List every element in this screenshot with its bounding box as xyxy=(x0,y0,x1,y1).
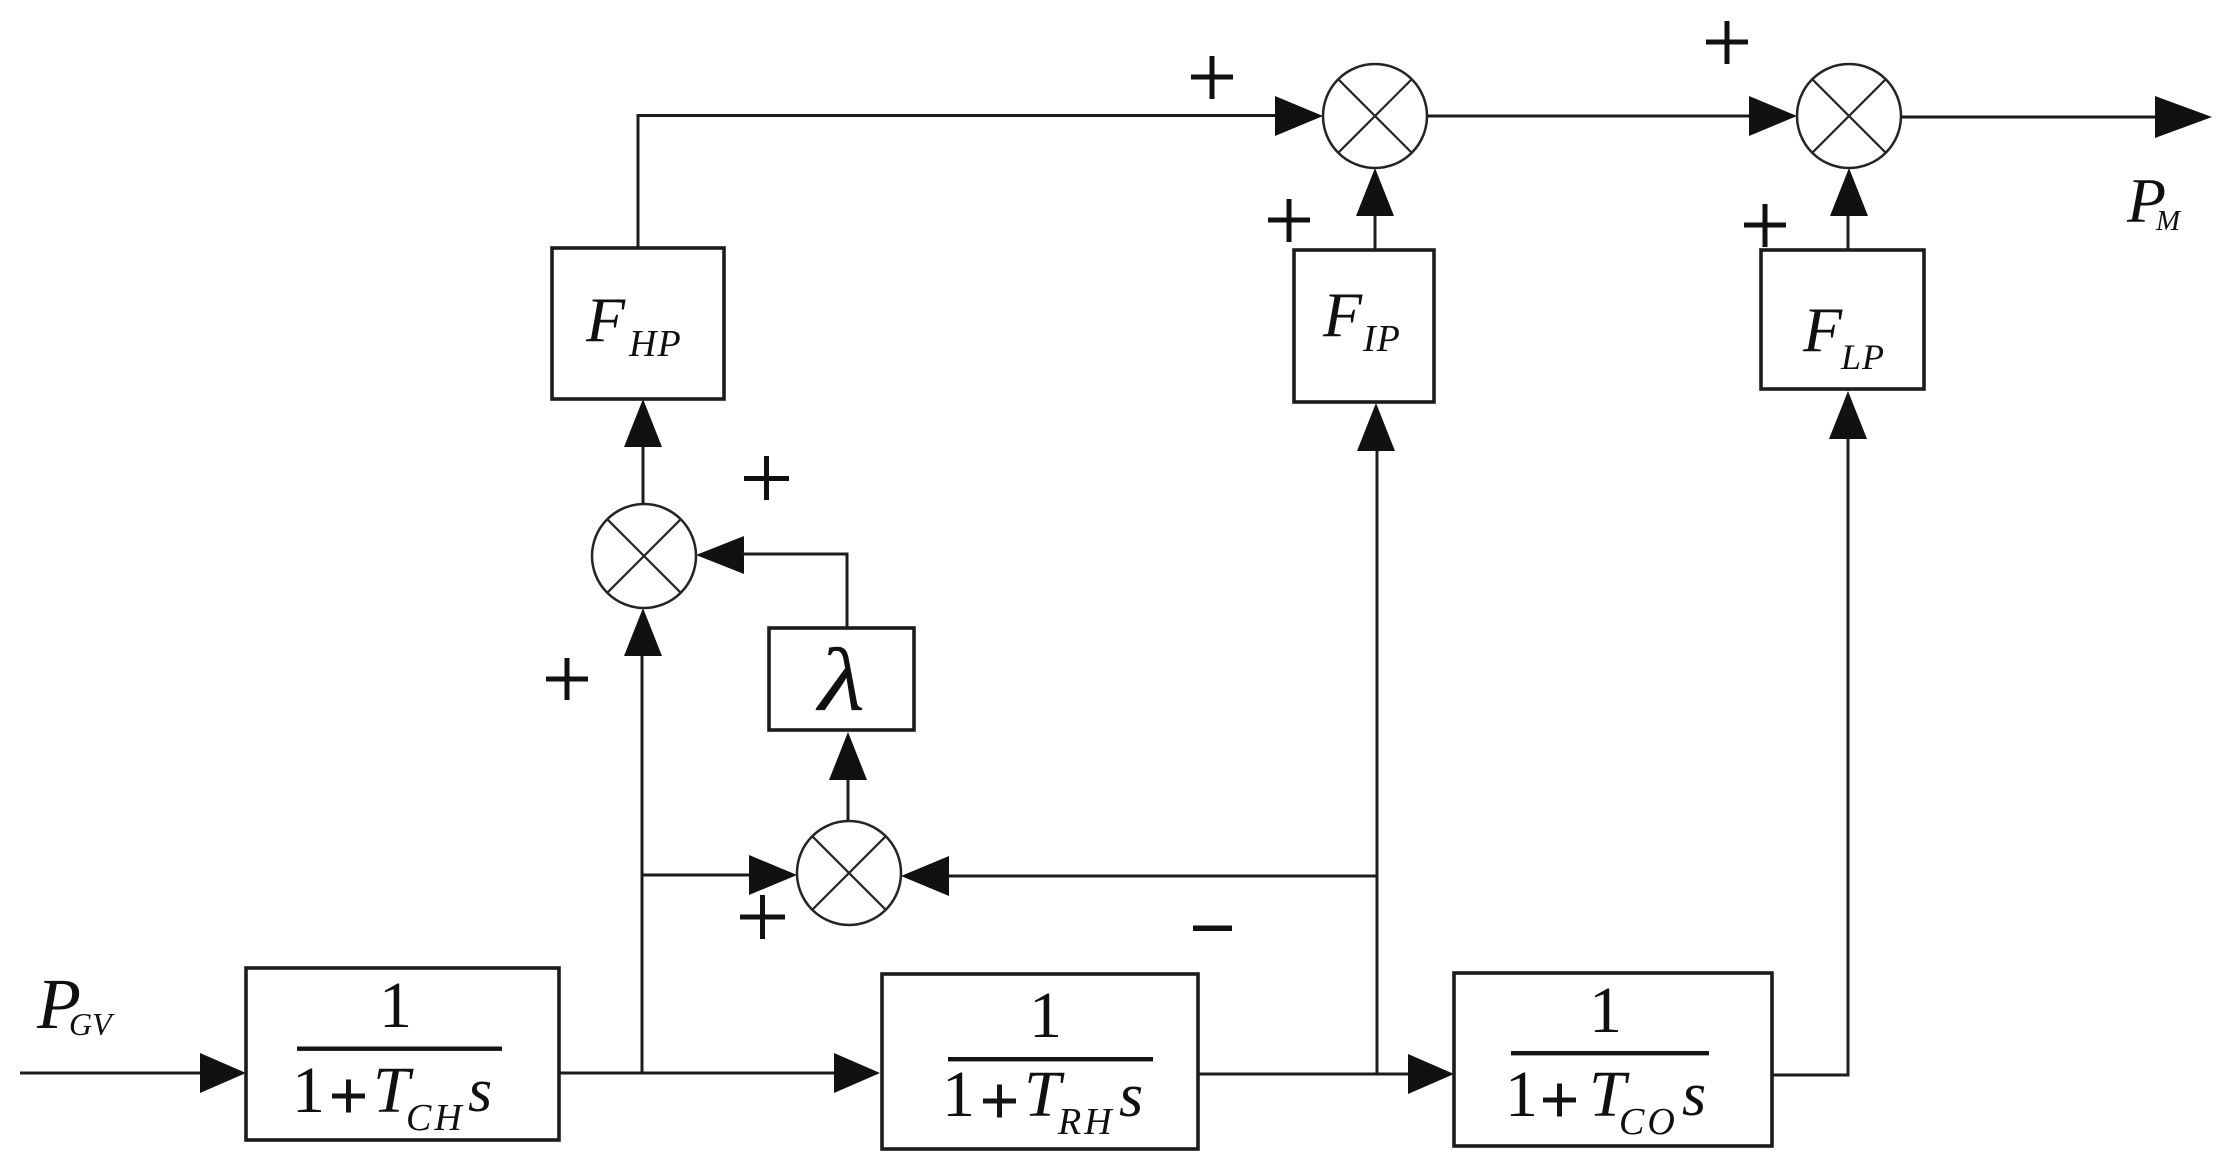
svg-text:CO: CO xyxy=(1619,1101,1678,1143)
wire feedback from IP rail to SB right input (minus) xyxy=(901,856,1377,896)
wire block G2 output to block G3 xyxy=(1198,1054,1454,1094)
block G2 1/(1+TRHs) xyxy=(882,974,1198,1149)
label P_GV xyxy=(36,964,115,1044)
svg-text:RH: RH xyxy=(1057,1101,1115,1143)
svg-text:1: 1 xyxy=(1505,1058,1538,1131)
block FHP xyxy=(552,248,724,399)
wire branch from rail to SB left input xyxy=(641,855,798,895)
block FIP xyxy=(1294,250,1434,402)
svg-text:1: 1 xyxy=(292,1054,325,1127)
svg-text:1: 1 xyxy=(1589,974,1622,1047)
svg-text:GV: GV xyxy=(69,1006,115,1042)
svg-text:F: F xyxy=(585,284,626,355)
block G1 1/(1+TCHs) xyxy=(246,968,559,1140)
svg-text:1: 1 xyxy=(379,969,412,1042)
summing junction S2 xyxy=(1797,64,1901,168)
svg-text:LP: LP xyxy=(1840,337,1885,377)
plus sign for SA right input xyxy=(744,456,789,500)
summing junction SB xyxy=(797,821,901,925)
wire branch rail up from node at (642,1073) to summing junction SA xyxy=(624,608,662,1073)
wire S1 output to summing junction S2 xyxy=(1427,96,1797,136)
svg-text:1: 1 xyxy=(942,1058,975,1131)
svg-text:F: F xyxy=(1802,294,1843,365)
wire SA output up into block FHP xyxy=(624,399,662,504)
block FLP xyxy=(1761,250,1924,389)
svg-text:1: 1 xyxy=(1029,979,1062,1052)
minus sign for SB right input xyxy=(1193,926,1232,932)
plus sign for S2 left input xyxy=(1706,21,1748,64)
wire rail from G2 output node up to block FIP xyxy=(1357,403,1395,1074)
wire FIP output up to S1 bottom input xyxy=(1356,168,1394,250)
svg-text:HP: HP xyxy=(628,323,682,365)
wire FLP output up to S2 bottom input xyxy=(1830,168,1868,250)
label P_M xyxy=(2126,165,2182,237)
svg-text:F: F xyxy=(1322,279,1363,350)
wire block G1 output to block G2 with branch node xyxy=(559,1053,880,1093)
wire input to block G1 xyxy=(20,1053,246,1093)
wire FHP output up and right to summing junction S1 xyxy=(637,96,1324,248)
wire S2 output arrow P_M xyxy=(1901,96,2212,138)
plus sign for S1 left input xyxy=(1191,56,1233,99)
summing junction SA xyxy=(592,504,696,608)
svg-text:IP: IP xyxy=(1362,318,1401,360)
block lambda xyxy=(769,628,914,730)
svg-text:s: s xyxy=(1682,1061,1706,1129)
plus sign for S1 bottom input xyxy=(1268,199,1310,242)
block G3 1/(1+TCOs) xyxy=(1454,973,1772,1146)
svg-text:s: s xyxy=(1119,1062,1143,1130)
plus sign for SB left input xyxy=(740,895,785,939)
svg-text:λ: λ xyxy=(815,629,865,729)
plus sign for S2 bottom input xyxy=(1744,204,1786,247)
summing junction S1 xyxy=(1323,64,1427,168)
svg-text:M: M xyxy=(2155,205,2182,237)
wire summing junction SB output up into lambda block xyxy=(829,732,867,821)
wire lambda block output to SA right input xyxy=(696,536,847,628)
plus sign for SA bottom input xyxy=(546,658,588,700)
svg-text:s: s xyxy=(468,1057,492,1125)
svg-text:CH: CH xyxy=(406,1097,465,1139)
wire block G3 output right and up to block FLP xyxy=(1772,391,1867,1077)
